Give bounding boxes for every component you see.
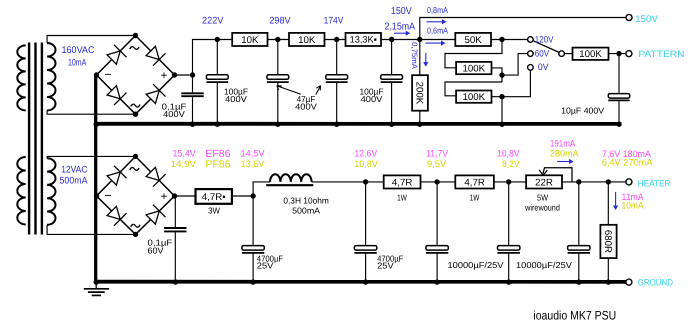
transformer T1 secondary winding 12VAC	[47, 158, 55, 225]
junction BR2 left vertex	[94, 193, 99, 198]
diode D1 (BR1 upper-left)	[107, 45, 126, 64]
svg-text:400V: 400V	[361, 94, 383, 104]
wire node120 to R6 left	[445, 40, 502, 68]
wire jog up to inductor	[253, 182, 270, 196]
junction R13 top	[606, 179, 611, 184]
svg-text:15,4V: 15,4V	[173, 147, 197, 158]
capacitor C9 4700uF 25V	[354, 182, 376, 281]
svg-text:10K: 10K	[298, 35, 316, 46]
svg-text:174V: 174V	[324, 16, 344, 27]
wire inductor to C9 node	[312, 181, 384, 183]
svg-text:14,5V: 14,5V	[241, 147, 266, 158]
svg-text:1W: 1W	[397, 193, 407, 203]
svg-text:150V: 150V	[635, 14, 659, 25]
junction 150V tap	[417, 37, 422, 42]
junction BR2 right vertex	[172, 193, 177, 198]
capacitor C12 10000uF 25V	[568, 182, 590, 281]
junction C3 bottom on rail	[275, 122, 280, 127]
resistor R5 50K	[455, 33, 491, 46]
diode D2 (BR1 upper-right)	[146, 46, 165, 65]
svg-text:222V: 222V	[202, 16, 224, 27]
junction node 60V	[499, 72, 504, 77]
wire R6 right to node60	[492, 68, 503, 82]
svg-text:10µF 400V: 10µF 400V	[561, 106, 604, 116]
svg-text:100K: 100K	[462, 92, 485, 103]
capacitor C4 47uF 400V	[326, 40, 348, 124]
terminal 150V	[626, 14, 632, 20]
wire node60 to 60V contact	[502, 54, 528, 76]
junction C12 bottom on rail	[576, 279, 581, 284]
svg-text:500mA: 500mA	[292, 206, 320, 216]
switch SW1 contact 120V	[528, 37, 534, 43]
arrow 680R current	[613, 192, 618, 210]
junction node 0V	[499, 94, 504, 99]
junction C10 top	[434, 179, 439, 184]
junction BR1 bottom vertex	[133, 112, 138, 117]
svg-text:14,9V: 14,9V	[171, 158, 197, 169]
junction node C1 top	[190, 72, 195, 77]
wire R8 to PATTERN	[609, 53, 627, 55]
resistor R9 4,7R 3W	[196, 189, 232, 204]
wire R13 top	[607, 182, 609, 225]
resistor R8 100K	[573, 48, 609, 61]
svg-text:wirewound: wirewound	[524, 203, 560, 213]
svg-text:−: −	[104, 189, 111, 203]
wire riser to B+ rail	[193, 40, 456, 76]
resistor R6 100K	[456, 62, 491, 75]
svg-text:+: +	[161, 191, 168, 203]
junction BR1 top vertex	[133, 33, 138, 38]
bridge rectifier BR2 outline	[97, 156, 175, 234]
wire 0V contact down	[502, 70, 530, 96]
resistor R10 4,7R 1W	[384, 175, 421, 188]
inductor L1 0,3H coil	[270, 174, 312, 182]
svg-text:680R: 680R	[602, 230, 613, 253]
svg-text:12,6V: 12,6V	[354, 147, 377, 158]
capacitor C8 4700uF 25V	[242, 196, 264, 281]
arrow pointer to C4	[316, 86, 321, 95]
svg-text:22R: 22R	[535, 177, 553, 188]
svg-text:8,2V: 8,2V	[502, 158, 520, 169]
ground rail upper section	[96, 122, 621, 126]
capacitor C3 47uF 400V	[267, 40, 289, 124]
label BR2 ~ top	[130, 168, 139, 171]
transformer T1 primary winding upper	[17, 45, 25, 110]
junction BR1 right vertex	[172, 72, 177, 77]
svg-text:5W: 5W	[537, 193, 549, 203]
svg-text:100K: 100K	[579, 49, 602, 60]
junction C5 top on rail	[389, 37, 394, 42]
junction C7 bottom on rail	[173, 279, 178, 284]
transformer T1 core	[29, 43, 42, 235]
junction C6 top	[616, 51, 621, 56]
junction C11 top	[506, 179, 511, 184]
svg-text:EF86: EF86	[205, 149, 230, 160]
wire R4 bottom	[419, 111, 421, 123]
diode D3 (BR1 lower-left)	[107, 86, 126, 105]
junction BR2 bottom vertex	[133, 232, 138, 237]
terminal PATTERN	[626, 51, 632, 57]
svg-text:400V: 400V	[295, 102, 317, 112]
wire sec1 top lead to bridge BR1 AC+	[47, 36, 135, 44]
wire BR1+ to C1 node	[175, 74, 193, 76]
arrow heater current	[557, 159, 574, 164]
capacitor C6 10uF 400V	[608, 54, 629, 123]
resistor R3 13,3K	[346, 33, 382, 46]
junction R13 bottom on rail	[606, 279, 611, 284]
capacitor C1 0,1uF 400V	[181, 75, 203, 123]
arrow 0,8mA	[427, 19, 447, 24]
svg-text:400V: 400V	[225, 94, 247, 104]
svg-text:10K: 10K	[241, 35, 259, 46]
svg-text:0,6mA: 0,6mA	[427, 26, 448, 36]
wire R9 to inductor node	[232, 195, 253, 197]
svg-text:PF86: PF86	[205, 160, 230, 171]
svg-text:1W: 1W	[470, 193, 480, 203]
svg-text:50K: 50K	[465, 35, 483, 46]
ground symbol	[84, 282, 109, 295]
svg-text:3W: 3W	[208, 206, 221, 216]
svg-text:298V: 298V	[269, 16, 291, 27]
switch SW1 blade	[533, 41, 559, 53]
junction C4 top on rail	[334, 37, 339, 42]
svg-text:11,7V: 11,7V	[426, 148, 449, 159]
svg-text:4,7R: 4,7R	[464, 177, 484, 188]
capacitor C2 100uF 400V	[206, 40, 228, 124]
svg-text:200K: 200K	[414, 82, 425, 105]
wire 150V output	[420, 18, 626, 40]
wire sec2 top lead to bridge BR2	[47, 156, 135, 158]
capacitor C11 10000uF 25V	[498, 182, 520, 281]
svg-text:13,6V: 13,6V	[241, 158, 266, 169]
svg-text:10mA: 10mA	[68, 58, 87, 69]
ground rail bottom section	[96, 280, 626, 284]
resistor R4 200K	[412, 75, 428, 111]
junction C1 bottom on rail	[190, 122, 195, 127]
svg-text:4,7R: 4,7R	[392, 177, 412, 188]
diode D8 (BR2 lower-right)	[146, 205, 165, 224]
wire common ground vertical	[94, 75, 97, 282]
resistor R13 680R	[600, 225, 616, 258]
wire R7 right to ground rail	[492, 97, 503, 123]
wire R12 to HEATER	[562, 181, 626, 183]
svg-text:150V: 150V	[391, 6, 412, 17]
svg-text:60V: 60V	[535, 48, 550, 58]
diode D6 (BR2 upper-right)	[146, 167, 165, 186]
transformer T1 primary winding lower	[17, 157, 25, 225]
svg-text:120V: 120V	[535, 34, 554, 44]
switch SW1 contact 0V	[528, 65, 534, 71]
capacitor C7 0,1uF 60V	[164, 196, 186, 281]
junction C5 bottom on rail	[389, 122, 394, 127]
wire BR2+ to R9	[175, 195, 196, 197]
svg-text:12VAC: 12VAC	[61, 165, 87, 176]
junction C8 bottom on rail	[250, 279, 255, 284]
wire sec1 bottom lead to bridge BR1 AC-	[47, 111, 135, 115]
svg-text:0,8mA: 0,8mA	[427, 5, 448, 15]
resistor R2 10K	[289, 33, 325, 46]
svg-text:160VAC: 160VAC	[62, 45, 95, 56]
junction C12 top	[576, 179, 581, 184]
diode D4 (BR1 lower-right)	[146, 84, 165, 103]
terminal GROUND	[626, 279, 632, 285]
svg-text:+: +	[161, 70, 168, 82]
switch SW1 contact 60V	[528, 51, 534, 57]
wire R5 to 120V contact	[491, 39, 528, 41]
svg-text:0V: 0V	[538, 62, 549, 72]
svg-text:10,8V: 10,8V	[497, 148, 520, 159]
arrow 0,75mA	[423, 53, 428, 67]
svg-text:10000µF/25V: 10000µF/25V	[516, 260, 572, 270]
transformer T1 secondary winding 160VAC	[47, 43, 55, 111]
resistor R7 100K	[456, 91, 491, 104]
svg-text:0,3H 10ohm: 0,3H 10ohm	[283, 196, 329, 206]
diode D7 (BR2 lower-left)	[107, 206, 126, 225]
junction node 120V	[499, 37, 504, 42]
svg-text:60V: 60V	[148, 246, 164, 256]
resistor R12 22R 5W	[526, 175, 562, 188]
junction rail left corner	[94, 122, 99, 127]
capacitor C5 100uF 400V	[381, 40, 403, 124]
svg-text:500mA: 500mA	[60, 175, 89, 186]
junction C4 bottom on rail	[334, 122, 339, 127]
junction BR2 top vertex	[133, 154, 138, 159]
svg-text:2,15mA: 2,15mA	[385, 21, 416, 32]
svg-text:ioaudio MK7 PSU: ioaudio MK7 PSU	[533, 309, 616, 323]
resistor R11 4,7R 1W	[455, 175, 494, 188]
arrow 2,15mA	[394, 31, 410, 36]
junction C9 top	[363, 179, 368, 184]
junction ground rail left corner	[94, 279, 99, 284]
junction C8 top	[250, 193, 255, 198]
junction C2 top on rail	[215, 37, 220, 42]
junction C3 top on rail	[275, 37, 280, 42]
bridge rectifier BR1 outline	[97, 36, 175, 115]
svg-text:100K: 100K	[462, 63, 485, 74]
junction C11 bottom on rail	[506, 279, 511, 284]
wire R10 to R11	[421, 181, 456, 183]
wire node60 to R7 left	[445, 82, 502, 96]
svg-text:25V: 25V	[257, 261, 274, 271]
svg-text:9,5V: 9,5V	[427, 158, 447, 169]
svg-text:13,3K▪: 13,3K▪	[350, 35, 377, 45]
junction C6 bottom on rail	[616, 122, 621, 127]
svg-text:10mA: 10mA	[622, 200, 645, 211]
junction BR1 left vertex	[94, 72, 99, 77]
svg-text:4,7R•: 4,7R•	[202, 192, 226, 203]
arrow pointer to C3	[277, 86, 301, 95]
wire R13 bottom	[607, 258, 609, 282]
svg-text:400V: 400V	[163, 109, 185, 119]
junction R4 bottom on rail	[417, 122, 422, 127]
svg-text:GROUND: GROUND	[638, 277, 674, 287]
diode D5 (BR2 upper-left)	[107, 166, 126, 185]
resistor R1 10K	[232, 33, 267, 46]
svg-text:HEATER: HEATER	[638, 179, 671, 189]
svg-text:6,4V 270mA: 6,4V 270mA	[602, 157, 653, 168]
capacitor C10 10000uF 25V	[426, 182, 448, 281]
svg-text:−: −	[104, 68, 111, 82]
svg-text:10000µF/25V: 10000µF/25V	[448, 260, 504, 270]
svg-text:0,75mA: 0,75mA	[410, 42, 419, 70]
junction R7 bottom on rail	[499, 122, 504, 127]
switch SW1 common pole	[559, 51, 565, 57]
rheostat wiper arrow on R12	[543, 168, 572, 182]
wire sec2 bottom lead to bridge BR2	[47, 225, 135, 235]
junction C9 bottom on rail	[363, 279, 368, 284]
svg-text:25V: 25V	[377, 261, 394, 271]
wire R11 to R12	[494, 181, 526, 183]
junction C2 bottom on rail	[215, 122, 220, 127]
label BR1 ~ bottom	[131, 104, 140, 107]
wire SW1 to R8	[564, 53, 572, 55]
label BR2 ~ bottom	[131, 224, 140, 227]
svg-text:280mA: 280mA	[550, 148, 579, 159]
label BR1 ~ top	[130, 47, 139, 50]
inductor L1 core bar	[266, 184, 313, 186]
wire R4 top	[419, 40, 421, 76]
svg-text:PATTERN: PATTERN	[638, 49, 684, 59]
junction C10 bottom on rail	[434, 279, 439, 284]
arrow 0,6mA	[426, 41, 446, 46]
svg-text:10,8V: 10,8V	[354, 158, 378, 169]
terminal HEATER	[626, 179, 632, 185]
